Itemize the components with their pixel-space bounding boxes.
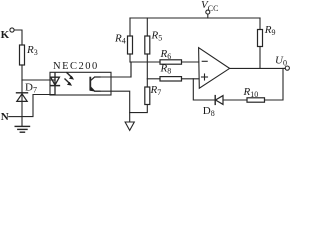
svg-text:R6: R6 xyxy=(160,48,172,61)
wire R3 bottom down to D7 and ground xyxy=(21,65,23,126)
svg-text:N: N xyxy=(1,111,9,123)
light arrows xyxy=(65,73,74,86)
resistor R4 xyxy=(129,18,131,36)
terminal U0 xyxy=(285,66,289,70)
Vcc rail xyxy=(130,17,260,19)
svg-text:R7: R7 xyxy=(150,84,162,97)
svg-text:U0: U0 xyxy=(275,55,287,68)
svg-text:NEC200: NEC200 xyxy=(53,61,99,72)
optocoupler U NEC200 box xyxy=(50,72,111,95)
plus sign xyxy=(202,76,208,78)
resistor R10 xyxy=(247,98,265,102)
wire LED cathode return xyxy=(22,95,55,117)
svg-text:D7: D7 xyxy=(25,82,37,95)
feedback tap to D8 xyxy=(193,79,215,100)
svg-text:R10: R10 xyxy=(243,86,259,99)
diode D7 xyxy=(17,93,28,102)
resistor R6 xyxy=(160,60,182,64)
svg-text:R9: R9 xyxy=(264,24,276,37)
node A wire to LED anode xyxy=(22,79,55,81)
svg-text:R3: R3 xyxy=(26,44,38,57)
collector wire to node xyxy=(95,62,131,77)
svg-text:K: K xyxy=(1,29,10,41)
minus sign xyxy=(202,60,207,62)
svg-text:R5: R5 xyxy=(151,30,163,43)
svg-text:D8: D8 xyxy=(203,105,215,118)
Vcc terminal xyxy=(206,10,210,14)
resistor R9 xyxy=(259,18,261,30)
wire R10 to output xyxy=(265,68,284,100)
ground (left, 3-bar) xyxy=(15,126,29,132)
resistor R7 xyxy=(145,87,150,105)
wire D8 to R10 xyxy=(223,99,247,101)
wire R8 to non-inverting input xyxy=(182,78,200,80)
terminal N wire xyxy=(9,116,22,118)
wire R5 to R7 divider xyxy=(146,54,148,87)
terminal K xyxy=(10,28,14,32)
wire node to R6 xyxy=(130,61,160,63)
svg-text:R4: R4 xyxy=(114,33,126,46)
wire R7 bottom to ground node xyxy=(130,105,148,113)
LED inside optocoupler xyxy=(51,73,60,94)
collector junction vertical xyxy=(130,62,132,77)
resistor R5 xyxy=(146,18,148,36)
ground (middle, triangle) xyxy=(125,122,134,130)
phototransistor xyxy=(90,77,100,92)
resistor R3 xyxy=(20,45,25,65)
wire R6 to inverting input xyxy=(182,61,199,63)
resistor R8 xyxy=(160,77,182,81)
wire K to R3 xyxy=(14,30,22,45)
emitter wire down to ground xyxy=(95,91,130,122)
op-amp U1 xyxy=(199,48,230,88)
svg-text:VCC: VCC xyxy=(201,0,218,12)
diode D8 xyxy=(215,96,223,105)
output wire xyxy=(230,67,286,69)
wire divider node to R8 xyxy=(147,78,160,80)
